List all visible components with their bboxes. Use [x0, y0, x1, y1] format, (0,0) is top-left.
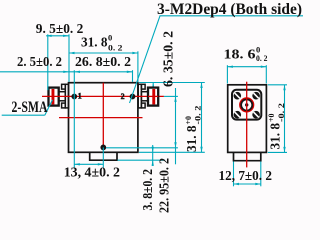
ext line right view top right: [268, 84, 287, 86]
svg-text:0. 2: 0. 2: [108, 43, 123, 53]
red centerline ports horizontal: [42, 95, 164, 97]
title underline: [160, 15, 304, 17]
svg-text:18. 6: 18. 6: [224, 48, 256, 63]
red centerline right view vertical: [246, 82, 248, 168]
dim 22.95 line: [175, 88, 177, 164]
dim 12.7 line: [234, 183, 261, 185]
dim 9.5 line: [0, 16, 303, 187]
svg-text:3. 8±0. 2: 3. 8±0. 2: [141, 169, 156, 211]
svg-text:26. 8±0. 2: 26. 8±0. 2: [75, 55, 131, 70]
ext line hole 3: [102, 147, 104, 167]
dim 13.4 line: [74, 163, 103, 165]
connector J1 top lug: [62, 84, 66, 89]
ext line hole 1: [73, 70, 75, 168]
coax outer ring: [241, 99, 253, 111]
ext line right view right edge: [265, 65, 267, 83]
svg-text:31. 8: 31. 8: [185, 126, 200, 153]
dim 31.8 left view height line: [201, 83, 203, 153]
ext line body bottom right: [139, 151, 205, 153]
flange screw hole bottom-right: [252, 111, 260, 119]
hole 1 dot: [71, 94, 77, 100]
dim 31.8 right view height line: [284, 85, 286, 153]
ext line body right edge: [137, 51, 139, 82]
svg-text:+0: +0: [266, 114, 276, 123]
svg-text:6. 35±0. 2: 6. 35±0. 2: [162, 31, 177, 87]
ext line right view left edge: [226, 65, 228, 83]
svg-text:0: 0: [108, 33, 112, 43]
svg-text:22. 95±0. 2: 22. 95±0. 2: [158, 158, 173, 213]
flange screw hole top-right: [252, 92, 260, 100]
svg-text:-0. 2: -0. 2: [276, 103, 286, 122]
dim 2.5 and 26.8 line: [0, 71, 133, 73]
svg-text:9. 5±0. 2: 9. 5±0. 2: [36, 22, 84, 37]
title leader to hole 2: [130, 16, 161, 103]
2-SMA underline: [2, 114, 45, 116]
ext line hole 3 right: [106, 147, 178, 149]
connector J2 neck: [141, 92, 148, 101]
connector J2 bottom lug: [141, 103, 145, 108]
svg-text:1: 1: [78, 92, 82, 101]
dim text 31.8 right rotated: [266, 103, 286, 150]
connector J1 bottom lug: [62, 103, 66, 108]
connector J2 flange plate: [138, 84, 141, 108]
ext line hole 2: [132, 70, 134, 82]
svg-text:0. 2: 0. 2: [256, 53, 268, 63]
body outline left view: [69, 83, 138, 153]
ext line body top right: [139, 82, 205, 84]
connector J2 top lug: [141, 84, 145, 89]
ext line tab right right view: [260, 162, 262, 187]
svg-text:-0. 2: -0. 2: [193, 106, 203, 125]
dim 3.8 line: [152, 145, 154, 166]
ext line body left edge: [68, 34, 70, 82]
svg-text:13, 4±0. 2: 13, 4±0. 2: [64, 165, 120, 180]
flange screw hole bottom-left: [234, 111, 242, 119]
svg-text:2: 2: [121, 92, 125, 101]
dim 18.6 line: [227, 66, 266, 68]
ext line tab left right view: [233, 162, 235, 187]
foot tab right view: [234, 152, 261, 160]
svg-text:12, 7±0. 2: 12, 7±0. 2: [219, 169, 273, 184]
connector J1 red insulator stripe: [52, 89, 55, 104]
dim 6.35 line: [152, 83, 154, 107]
dim text 31.8 left rotated: [183, 106, 203, 153]
connector J2 red insulator stripe: [152, 89, 155, 104]
ext line barrel end: [47, 34, 49, 90]
red centerline through J2 nut: [148, 95, 158, 97]
svg-text:2. 5±0. 2: 2. 5±0. 2: [17, 55, 62, 70]
svg-text:31. 8: 31. 8: [81, 36, 108, 51]
coax center pin: [245, 103, 248, 106]
coax red circle: [240, 98, 254, 112]
connector J1 nut body: [49, 88, 59, 106]
SMA flange square right view: [232, 90, 261, 120]
2-SMA leader: [45, 100, 53, 115]
connector J1 neck: [59, 92, 66, 101]
ext line tab bottom right: [117, 159, 165, 161]
svg-text:31. 8: 31. 8: [268, 123, 283, 150]
svg-text:3-M2Dep4 (Both side): 3-M2Dep4 (Both side): [157, 1, 302, 18]
ext line port centerline right: [164, 95, 178, 97]
dim 31.8 top line: [69, 52, 138, 54]
svg-text:2-SMA: 2-SMA: [12, 99, 48, 116]
hole 2 dot: [130, 94, 136, 100]
red centerline body horizontal: [59, 117, 143, 119]
connector J1 flange plate: [65, 84, 68, 108]
foot tab left view: [90, 152, 117, 160]
body outline right view: [228, 85, 267, 153]
red centerline body vertical: [102, 83, 104, 151]
svg-text:+0: +0: [183, 116, 193, 125]
flange screw hole top-left: [234, 92, 242, 100]
ext line right view bottom right: [268, 151, 287, 153]
hole 3 dot: [100, 145, 106, 151]
connector J2 nut body: [148, 88, 158, 106]
